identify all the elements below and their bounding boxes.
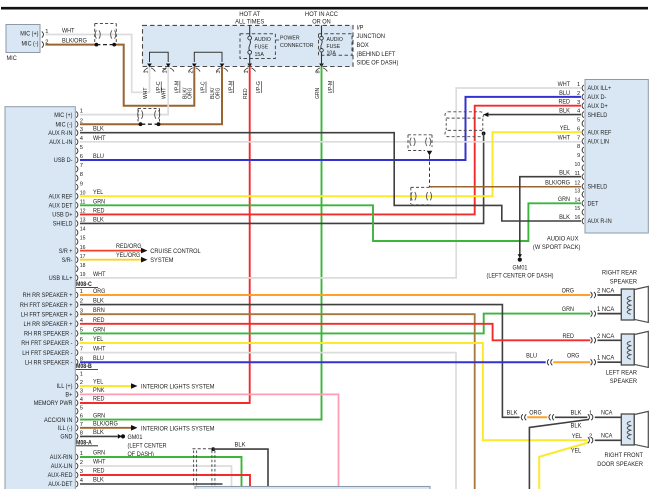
svg-text:FUSE: FUSE [255,45,269,51]
radio connector M08-B pin 8 LH RR SPEAKER - [25,356,83,366]
left rear speaker [591,331,649,385]
inline connector C (MIC harness) [95,24,117,43]
aux unit pin 12 SHIELD [575,181,608,191]
svg-text:BLK: BLK [235,441,247,448]
radio connector M08-C pin 6 USB D- [54,154,83,164]
radio connector M08-C pin 2 MIC (-) [56,118,84,128]
svg-text:1: 1 [80,109,83,115]
radio connector M08-B pin 6 RH FRT SPEAKER - [21,337,83,347]
svg-text:AUX R-IN: AUX R-IN [48,130,72,137]
wire BLK: shield drain from bottom connector (off page) [211,441,268,489]
svg-text:I/P-G: I/P-G [256,81,262,93]
svg-text:AUX-DET: AUX-DET [48,481,72,488]
radio connector M08-A pin 2 ILL (+) [57,380,83,390]
svg-text:YEL: YEL [93,379,104,386]
aux unit pin 16 AUX R-IN [575,215,612,225]
radio connector M08-A pin 6 ACC/ON IN [44,414,83,424]
svg-text:DOOR SPEAKER: DOOR SPEAKER [597,461,643,468]
svg-text:USB D+: USB D+ [52,212,73,219]
svg-text:AUX LIN: AUX LIN [588,138,610,145]
wire WHT: radio USB ILL+ to aux AUX ILL+ [80,81,581,278]
wire BLK: aux pin11 to ground GM01 [518,170,581,262]
svg-text:WHT: WHT [558,135,571,142]
svg-text:18: 18 [80,263,86,269]
radio connector M08-C pin 13 SHIELD [53,218,86,228]
ground GM01 (left) [128,434,168,458]
svg-text:AUX D+: AUX D+ [588,103,609,110]
svg-text:AUX D-: AUX D- [588,94,607,101]
svg-text:MIC (-): MIC (-) [22,41,39,48]
svg-text:WHT: WHT [162,87,168,99]
wire RED/ORG: radio S/R+ to cruise control [80,243,201,255]
wire GRN: AUDIO FUSE 10A to radio ACC/ON IN [80,52,322,420]
radio connector M08-C pin 8 [76,172,83,181]
radio bottom connector pin 4 AUX-DET [48,478,84,488]
svg-text:NCA: NCA [601,433,612,439]
svg-text:ORG: ORG [562,288,575,295]
radio connector M08-C pin 9 [76,181,83,190]
svg-text:4: 4 [80,397,84,403]
svg-text:LEFT REAR: LEFT REAR [606,370,638,377]
svg-text:ORG: ORG [188,88,194,99]
svg-text:BLK: BLK [93,126,105,133]
svg-text:RED: RED [93,396,105,403]
svg-text:SHIELD: SHIELD [588,112,608,119]
radio connector M08-C pin 5 [76,145,83,154]
svg-text:AUDIO AUX: AUDIO AUX [547,235,579,242]
label GRN on ACC/ON IN wire [93,412,105,419]
wire RED: radio USB D+ to aux AUX D+ [80,99,581,215]
aux unit pin 7 AUX LIN [577,135,609,145]
connector label M08-A [76,440,98,446]
wire WHT: radio AUX-LIN (off page) [80,459,232,489]
radio connector M08-A pin 8 GND [60,431,83,441]
aux unit pin 5 [577,118,584,127]
svg-text:9: 9 [80,181,83,187]
radio connector M08-A pin 7 ILL (-) [58,422,83,432]
svg-text:BLK/ORG: BLK/ORG [545,179,570,186]
svg-text:I/P: I/P [357,24,364,31]
junction box internal jumper I/P-C1 to I/P-M14 [150,52,169,62]
svg-text:BLK: BLK [507,409,519,416]
svg-text:USB ILL+: USB ILL+ [49,275,73,282]
svg-text:BLK: BLK [571,409,583,416]
connector label M08-B [76,364,98,370]
svg-text:RH RR SPEAKER -: RH RR SPEAKER - [24,331,73,338]
svg-text:13: 13 [575,188,581,194]
svg-text:RED: RED [563,333,575,340]
svg-text:YEL: YEL [93,336,104,343]
svg-text:RH FRT SPEAKER -: RH FRT SPEAKER - [21,340,72,347]
junction box pin 1 (I/P-C) [143,64,162,100]
aux unit pin 6 AUX REF [577,126,612,136]
aux unit pin 11 [575,171,584,180]
radio connector M08-C pin 4 AUX L-IN [49,136,84,146]
svg-text:DET: DET [588,200,599,207]
aux unit pin 1 AUX ILL+ [577,82,612,92]
svg-text:BLK/ORG: BLK/ORG [93,420,118,427]
wire YEL: tweeter feed to right front door speaker pin2 [539,443,588,489]
svg-text:BLK: BLK [559,170,571,177]
component box at bottom edge [195,487,430,489]
page top border [1,7,648,10]
wire RED: AUDIO FUSE 15A to radio MEMORY PWR [80,54,250,403]
radio connector M08-B pin 3 LH FRT SPEAKER + [21,308,83,318]
svg-text:1 NCA: 1 NCA [597,307,614,313]
svg-text:WHT: WHT [558,81,571,88]
svg-text:RIGHT REAR: RIGHT REAR [602,270,637,277]
svg-text:RED: RED [243,88,249,99]
wire BRN: radio LH FRT SPEAKER + (to left front door speaker, off page) [80,307,475,489]
svg-text:S/R +: S/R + [59,248,73,255]
wire YEL/ORG: radio S/R- to cruise control [80,252,174,264]
svg-text:SPEAKER: SPEAKER [610,378,638,385]
svg-text:MIC (-): MIC (-) [56,121,73,128]
junction box internal jumper I/P-C2 to I/P-M3 [194,52,222,62]
svg-text:GRN: GRN [93,198,105,205]
svg-text:MIC (+): MIC (+) [20,31,38,38]
svg-text:BLK: BLK [93,216,105,223]
wire BLK: radio AUX-DET [80,477,223,485]
svg-text:(LEFT CENTER: (LEFT CENTER [128,442,168,449]
svg-text:5: 5 [80,405,83,411]
radio connector M08-C pin 11 AUX DET [49,199,86,209]
radio connector M08-A pin 5 [76,405,83,414]
svg-text:10A: 10A [327,51,337,57]
wire YEL: radio RH FRT SPEAKER - to right front door speaker pin2 [80,336,587,440]
svg-text:AUX L-IN: AUX L-IN [49,139,72,146]
svg-text:5: 5 [80,145,83,151]
svg-text:14: 14 [80,227,86,233]
svg-text:AUX-RIN: AUX-RIN [50,454,73,461]
svg-text:GRN: GRN [93,326,105,333]
svg-text:LH FRT SPEAKER -: LH FRT SPEAKER - [22,350,72,357]
svg-text:RED/ORG: RED/ORG [116,243,142,250]
svg-text:BLK: BLK [93,429,105,436]
svg-text:GRN: GRN [93,412,105,419]
right front door speaker [588,410,648,468]
svg-text:BLU: BLU [93,355,104,362]
svg-text:2 NCA: 2 NCA [597,334,614,340]
svg-text:SIDE OF DASH): SIDE OF DASH) [357,60,399,67]
radio connector M08-C pin 1 MIC (+) [54,109,83,119]
label HOT AT ALL TIMES [235,11,264,25]
svg-text:1: 1 [80,372,83,378]
svg-text:RED: RED [559,99,571,106]
radio bottom connector pin 2 AUX-LIN [51,460,83,470]
radio connector M08-C pin 18 [76,263,85,272]
aux unit pin 14 DET [575,197,599,207]
svg-text:POWER: POWER [280,35,300,41]
radio connector M08-B pin 5 RH RR SPEAKER - [24,328,83,338]
junction box pin 8 (I/P-M) [315,64,334,100]
radio connector M08-B pin 7 LH FRT SPEAKER - [22,347,83,357]
svg-text:BLU: BLU [93,153,104,160]
wire BLK: radio AUX R-IN to aux AUX R-IN [80,126,581,221]
svg-text:AUDIO: AUDIO [255,37,272,43]
svg-text:SHIELD: SHIELD [588,184,608,191]
svg-text:SPEAKER: SPEAKER [610,278,638,285]
svg-text:GRN: GRN [93,450,105,457]
svg-text:ALL TIMES: ALL TIMES [235,19,264,26]
svg-text:GM01: GM01 [513,264,528,271]
radio connector M08-B pin 2 RH FRT SPEAKER + [20,299,83,309]
svg-text:WHT: WHT [93,459,106,466]
svg-text:USB D-: USB D- [54,157,73,164]
svg-text:12: 12 [575,181,581,187]
svg-text:MEMORY PWR: MEMORY PWR [34,400,73,407]
wire BLK/ORG: shield to aux SHIELD pin12 [430,179,581,187]
svg-text:ORG: ORG [93,288,106,295]
fuse AUDIO FUSE 15A [240,25,275,58]
svg-text:BLU: BLU [559,90,570,97]
inline connector C (aux left/ref pair upper) [408,135,432,151]
wire BLK shield drain: radio SHIELD to aux SHIELD pin4 [80,108,581,224]
svg-text:BOX: BOX [357,42,370,49]
svg-text:WHT: WHT [62,28,75,35]
svg-text:WHT: WHT [143,87,149,99]
svg-text:MIC (+): MIC (+) [54,112,72,119]
aux unit pin 3 AUX D+ [577,100,608,110]
svg-text:OR ON: OR ON [312,19,331,26]
radio head unit [5,107,75,489]
svg-text:BLU: BLU [526,353,537,360]
label POWER CONNECTOR [275,35,313,48]
svg-text:GRN: GRN [315,88,321,99]
svg-text:WHT: WHT [93,271,106,278]
aux unit pin 2 AUX D- [577,91,606,101]
svg-text:I/P-C: I/P-C [201,81,207,93]
inline connector C (bottom aux harness) [193,449,215,486]
inline connector C (USB shielded pair) [445,112,484,137]
svg-text:9: 9 [577,153,580,159]
svg-text:WHT: WHT [93,346,106,353]
svg-text:HOT AT: HOT AT [239,11,260,18]
svg-text:15: 15 [80,236,86,242]
svg-text:YEL/ORG: YEL/ORG [116,252,140,259]
svg-text:HOT IN ACC: HOT IN ACC [305,11,338,18]
svg-text:1 NCA: 1 NCA [597,356,614,362]
svg-text:FUSE: FUSE [327,44,341,50]
wire YEL: radio AUX REF to aux AUX REF [80,125,581,196]
svg-text:YEL: YEL [572,433,583,440]
svg-text:7: 7 [80,163,83,169]
svg-text:CONNECTOR: CONNECTOR [280,43,314,49]
svg-text:1: 1 [589,410,592,416]
svg-text:4: 4 [577,109,581,115]
radio connector M08-C pin 17 S/R- [62,254,86,264]
svg-text:RH RR SPEAKER +: RH RR SPEAKER + [23,292,73,299]
svg-text:16: 16 [575,215,581,221]
svg-text:GM01: GM01 [128,434,143,441]
radio connector M08-C pin 14 [76,227,86,236]
svg-text:BLK: BLK [93,298,105,305]
svg-text:WHT: WHT [93,135,106,142]
svg-text:(LEFT CENTER OF DASH): (LEFT CENTER OF DASH) [487,273,554,280]
inline connector C (aux ref lower) [411,187,432,204]
svg-text:RED: RED [93,468,105,475]
svg-text:I/P-M: I/P-M [328,81,334,93]
radio connector M08-C pin 3 AUX R-IN [48,127,83,137]
aux unit pin 15 [575,206,584,215]
junction box pin 14 (I/P-M) [162,64,181,100]
radio connector M08-C pin 10 AUX REF [49,190,86,200]
svg-text:(BEHIND LEFT: (BEHIND LEFT [357,51,396,58]
radio bottom connector pin 3 AUX-RED [48,469,83,479]
wire RED: radio AUX-RED (off page) [80,468,250,489]
wire BLK/ORG: I/P-M pin3 to radio MIC(-) [80,67,222,126]
I/P junction box [143,25,354,66]
svg-text:ORG: ORG [529,409,542,416]
svg-text:6: 6 [80,414,83,420]
svg-text:ORG: ORG [215,88,221,99]
svg-text:BLK: BLK [93,477,105,484]
svg-text:11: 11 [575,171,581,177]
wire GRN: radio AUX DET to aux DET [80,196,581,241]
ground GM01 (right) [487,264,554,279]
wire WHT: I/P-M pin14 to radio MIC(+) [80,67,168,115]
junction box pin 2 (I/P-C) [182,64,206,100]
wire WHT: radio LH FRT SPEAKER - (off page) [80,346,456,489]
svg-text:B+: B+ [65,392,72,399]
aux unit pin 13 [575,188,584,197]
wire WHT: MIC pin1 to I/P-C pin1 [46,28,150,93]
radio connector M08-A pin 1 [76,372,83,381]
right rear speaker [591,270,649,323]
svg-text:SHIELD: SHIELD [53,221,73,228]
svg-text:AUX-LIN: AUX-LIN [51,463,73,470]
svg-text:INTERIOR LIGHTS SYSTEM: INTERIOR LIGHTS SYSTEM [141,425,215,432]
svg-text:AUX ILL+: AUX ILL+ [588,85,612,92]
svg-text:2: 2 [189,70,195,73]
radio bottom connector pin 1 AUX-RIN [50,451,83,461]
radio connector M08-C pin 12 USB D+ [52,208,85,218]
svg-text:GRN: GRN [562,306,574,313]
wire PNK: radio B+ (off page) [80,387,339,489]
svg-text:7: 7 [577,135,580,141]
radio connector M08-B pin 1 RH RR SPEAKER + [23,289,83,299]
svg-text:RED: RED [93,317,105,324]
junction box pin 3 (I/P-M) [210,64,234,100]
svg-text:RIGHT FRONT: RIGHT FRONT [605,452,644,459]
svg-text:AUDIO: AUDIO [327,37,344,43]
radio connector M08-C pin 15 [76,236,85,245]
svg-text:ORG: ORG [567,353,580,360]
svg-text:8: 8 [577,144,580,150]
svg-text:MIC: MIC [7,55,18,62]
svg-text:BLK: BLK [571,422,583,429]
junction box pin 1 (I/P-G) [243,64,262,100]
svg-text:JUNCTION: JUNCTION [357,33,386,40]
svg-text:15: 15 [575,206,581,212]
svg-text:2 NCA: 2 NCA [597,289,614,295]
svg-text:INTERIOR LIGHTS SYSTEM: INTERIOR LIGHTS SYSTEM [141,384,215,391]
svg-text:GRN: GRN [558,196,570,203]
svg-text:8: 8 [80,172,83,178]
aux unit pin 9 [577,153,584,162]
wire RED: radio LH RR SPEAKER + to left rear speaker pin2 [80,317,590,341]
svg-text:LH RR SPEAKER -: LH RR SPEAKER - [25,359,73,366]
svg-text:AUX DET: AUX DET [49,203,73,210]
svg-text:I/P-M: I/P-M [228,81,234,93]
aux unit pin 8 [577,144,584,153]
wire BLK/ORG: MIC pin2 to I/P-C pin2 [46,38,195,106]
svg-text:15A: 15A [255,52,265,58]
inline connector C (radio MIC harness) [138,109,160,122]
svg-text:YEL: YEL [560,125,571,132]
wire BLK: radio GND to ground GM01 [80,429,125,439]
svg-text:SYSTEM: SYSTEM [150,257,173,264]
wire BLK/ORG: radio ILL(-) to interior lights system [80,420,215,432]
svg-text:ILL (-): ILL (-) [58,425,73,432]
wire BLK: tweeter feed to right front door speaker pin1 [529,420,588,489]
svg-text:YEL: YEL [571,448,582,455]
audio aux unit AUDIO AUX (W SPORT PACK) [533,80,648,252]
svg-text:10: 10 [575,162,581,168]
wire WHT: radio AUX L-IN to aux AUX LIN [80,135,581,142]
svg-text:AUX REF: AUX REF [49,193,73,200]
svg-text:5: 5 [577,118,580,124]
svg-text:LH RR SPEAKER +: LH RR SPEAKER + [24,321,73,328]
microphone MIC [6,25,48,62]
svg-text:NCA: NCA [601,410,612,416]
svg-text:2: 2 [80,118,83,124]
wire ORG: radio RH RR SPEAKER + to right rear speaker pin2 [80,288,590,296]
svg-text:LH FRT SPEAKER +: LH FRT SPEAKER + [21,311,73,318]
radio connector M08-A pin 3 B+ [65,389,83,399]
svg-text:BLK: BLK [559,214,571,221]
svg-text:GND: GND [60,434,73,441]
svg-text:(W SPORT PACK): (W SPORT PACK) [533,244,581,251]
svg-text:AUX R-IN: AUX R-IN [588,218,612,225]
wire BLU: radio LH RR SPEAKER - to left rear speaker pin1 [80,353,590,366]
connector label M08-C [76,282,98,288]
svg-text:BLK/ORG: BLK/ORG [62,38,87,45]
svg-text:S/R-: S/R- [62,257,73,264]
wire GRN: radio RH RR SPEAKER - to right rear speaker pin1 [80,306,590,333]
shield drain dashed link between connectors [427,151,432,187]
svg-text:BLK: BLK [559,108,571,115]
svg-text:AUX-RED: AUX-RED [48,472,73,479]
svg-text:PNK: PNK [93,387,105,394]
radio connector M08-A pin 4 MEMORY PWR [34,397,84,407]
svg-text:ACC/ON IN: ACC/ON IN [44,417,73,424]
wire BLU: radio USB D- to aux AUX D- [80,90,581,160]
radio connector M08-C pin 19 USB ILL+ [49,272,86,282]
label RED on MEMORY PWR wire [93,396,105,403]
aux unit pin 10 [575,162,584,171]
label I/P JUNCTION BOX [357,24,399,66]
svg-text:ILL (+): ILL (+) [57,383,73,390]
svg-text:1: 1 [144,70,150,73]
fuse AUDIO FUSE 10A [319,25,353,56]
svg-text:YEL: YEL [93,189,104,196]
wire GRN: radio AUX-RIN (off page) [80,450,242,489]
svg-text:RH FRT SPEAKER +: RH FRT SPEAKER + [20,302,73,309]
wire BLK: radio RH FRT SPEAKER + to right front door speaker pin1 [80,298,587,421]
aux unit pin 4 SHIELD [577,109,608,119]
svg-text:I/P-M: I/P-M [175,81,181,93]
radio connector M08-C pin 7 [76,163,83,172]
svg-text:AUX REF: AUX REF [588,130,612,137]
wire YEL: radio ILL(+) to interior lights system [80,379,215,391]
svg-text:CRUISE CONTROL: CRUISE CONTROL [150,248,201,255]
radio connector M08-B pin 4 LH RR SPEAKER + [24,318,84,328]
svg-text:RED: RED [93,207,105,214]
label HOT IN ACC OR ON [305,11,338,25]
svg-text:2: 2 [589,433,592,439]
svg-text:BRN: BRN [93,307,105,314]
